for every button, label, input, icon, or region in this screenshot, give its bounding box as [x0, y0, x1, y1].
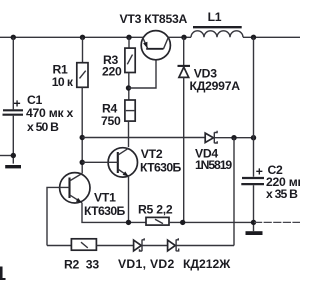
transistor VT3	[141, 31, 170, 60]
node C1 top junction	[11, 35, 16, 40]
wire VT1 base link	[47, 187, 70, 245]
wire R5 right to ground node	[169, 221, 254, 223]
wire VT2 base line	[82, 161, 118, 163]
svg-text:VT1: VT1	[94, 191, 116, 205]
svg-text:КТ630Б: КТ630Б	[140, 160, 182, 174]
svg-text:КД2997А: КД2997А	[190, 79, 241, 93]
svg-text:R2: R2	[64, 257, 80, 271]
inductor L1 core bar	[193, 26, 242, 28]
svg-text:C1: C1	[27, 93, 43, 107]
svg-text:VT3 КТ853А: VT3 КТ853А	[120, 12, 188, 26]
wire right return column	[233, 138, 235, 246]
svg-text:+: +	[256, 165, 263, 179]
resistor R5	[146, 217, 169, 225]
node mid rail output junction	[251, 135, 256, 140]
wire C1 negative lead	[12, 116, 14, 164]
wire VT2 emitter lead	[128, 177, 130, 223]
node VD4 right junction	[231, 135, 236, 140]
node R3/R4/VT3-base junction	[126, 85, 131, 90]
node output junction	[251, 35, 256, 40]
wire R3 top lead	[128, 37, 130, 48]
diode VD1	[134, 238, 145, 251]
wire left stub to edge	[0, 155, 13, 157]
wire R1 top lead	[82, 37, 84, 62]
svg-text:R5 2,2: R5 2,2	[138, 202, 173, 216]
wire top rail VT3 collector to L1	[168, 36, 191, 38]
svg-text:1N5819: 1N5819	[195, 158, 232, 172]
diode VD3	[178, 66, 191, 78]
svg-text:33: 33	[86, 257, 100, 271]
wire VD2 to right return column	[176, 245, 234, 247]
svg-text:L1: L1	[208, 10, 222, 24]
node emitters junction	[126, 220, 131, 225]
node VT2 base line junction	[80, 160, 85, 165]
diode VD2	[168, 238, 179, 251]
wire R3 bottom to R4 top	[128, 73, 130, 101]
ground right	[246, 231, 263, 235]
wire R1 bottom / VT1 collector column	[81, 87, 83, 173]
diode VD4	[205, 131, 217, 144]
resistor R2	[71, 239, 96, 250]
transistor VT2	[108, 148, 137, 177]
svg-text:х 50 В: х 50 В	[27, 120, 59, 134]
wire VD4 cathode to output column	[215, 137, 254, 139]
node R1 top junction	[80, 35, 85, 40]
wire bottom rail left segment	[47, 245, 72, 247]
ground left	[5, 165, 21, 168]
wire VD1 to VD2	[142, 245, 168, 247]
svg-text:10 к: 10 к	[52, 75, 74, 89]
wire VT3 base link	[129, 60, 157, 88]
node C1 bottom junction	[11, 153, 16, 158]
node VT3 collector / VD3 / L1 junction	[181, 35, 186, 40]
wire output column	[253, 37, 255, 177]
node R1 bottom rail junction	[80, 135, 85, 140]
svg-text:1: 1	[0, 264, 7, 285]
node ground right junction	[251, 220, 256, 225]
resistor R4	[125, 100, 135, 121]
node VD3 / R5 junction	[180, 220, 185, 225]
wire dashed continuation right	[254, 221, 300, 223]
svg-text:x 35 В: x 35 В	[266, 187, 298, 201]
capacitor C1	[3, 110, 24, 114]
svg-text:750: 750	[101, 114, 121, 128]
wire top rail L1 to right edge	[243, 36, 300, 38]
svg-text:+: +	[14, 97, 21, 111]
transistor VT1	[60, 173, 90, 203]
wire VT1 emitter lead	[82, 203, 146, 223]
node R3 top junction	[126, 35, 131, 40]
wire VD3 top lead	[183, 37, 185, 65]
svg-text:470 мк х: 470 мк х	[26, 106, 73, 120]
svg-text:КД212Ж: КД212Ж	[183, 257, 231, 271]
svg-text:VT2: VT2	[141, 147, 163, 161]
wire mid rail	[82, 137, 205, 139]
resistor R3	[125, 48, 135, 72]
svg-text:VD1, VD2: VD1, VD2	[118, 257, 175, 271]
wire R2 to VD1	[96, 245, 133, 247]
inductor L1	[191, 31, 243, 38]
svg-text:220: 220	[102, 64, 122, 78]
wire top rail left segment	[0, 36, 144, 38]
capacitor C2	[241, 178, 264, 184]
wire VD3 bottom lead	[183, 77, 185, 222]
wire C1 positive lead	[12, 37, 14, 109]
wire R4 bottom to VT2 collector	[128, 121, 130, 147]
wire C2 negative lead	[253, 185, 255, 231]
svg-text:КТ630Б: КТ630Б	[84, 204, 126, 218]
resistor R1	[77, 63, 88, 88]
